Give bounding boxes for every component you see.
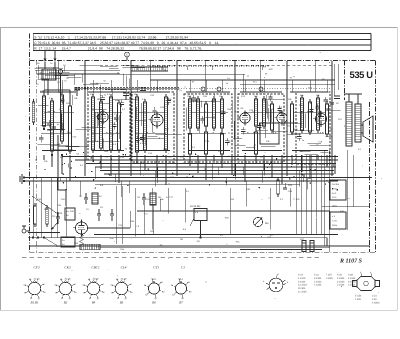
svg-text:0,1: 0,1 xyxy=(122,108,126,111)
bus line 5 xyxy=(100,170,334,172)
shield box stage3 xyxy=(132,92,174,162)
power vertical wires xyxy=(295,155,297,234)
svg-text:C7: C7 xyxy=(79,195,83,198)
svg-text:a0: a0 xyxy=(74,291,77,294)
pickup connector xyxy=(269,278,283,292)
tube CF2 IF xyxy=(240,113,250,123)
resistor R1 xyxy=(69,106,72,151)
osc trimmer xyxy=(140,87,146,89)
svg-text:a0: a0 xyxy=(162,291,165,294)
svg-text:0,1: 0,1 xyxy=(107,93,111,96)
IF2 cap xyxy=(271,104,274,130)
svg-text:C 34: C 34 xyxy=(332,220,337,223)
switch bus line xyxy=(137,210,330,212)
IF2 coil b xyxy=(263,99,266,126)
svg-text:92: 92 xyxy=(265,72,268,75)
svg-text:4,9: 4,9 xyxy=(76,153,80,156)
svg-text:C20: C20 xyxy=(150,94,155,97)
svg-text:R 1107 S: R 1107 S xyxy=(339,259,363,265)
svg-text:97: 97 xyxy=(290,76,293,79)
bus line 8 xyxy=(24,180,338,182)
heater bus 2 xyxy=(28,237,327,239)
svg-text:R8: R8 xyxy=(241,107,245,110)
dial assembly dashed line xyxy=(100,64,332,66)
svg-text:a0: a0 xyxy=(102,291,105,294)
coil S8 xyxy=(144,102,147,150)
svg-text:4a 5a Me: 4a 5a Me xyxy=(190,205,201,208)
svg-text:Sa: Sa xyxy=(66,210,69,213)
parts table frame xyxy=(33,33,371,35)
svg-text:B7: B7 xyxy=(179,301,183,305)
svg-text:C56: C56 xyxy=(288,190,293,193)
dial drive dotted line xyxy=(150,65,270,67)
svg-text:38: 38 xyxy=(336,102,339,105)
out coil b xyxy=(317,98,320,130)
svg-text:I 3135: I 3135 xyxy=(326,277,333,280)
power cross line xyxy=(322,206,370,208)
IF coil b xyxy=(197,99,200,128)
svg-text:R25: R25 xyxy=(288,184,293,187)
can top circle 1 xyxy=(201,87,205,91)
svg-text:4A 5: 4A 5 xyxy=(332,196,337,199)
heater bus 1 xyxy=(94,233,338,235)
svg-text:C 75=51,6 30,94 96, 71,46=57: C 75=51,6 30,94 96, 71,46=57,2,37 34,5 2… xyxy=(34,41,219,45)
svg-text:C77: C77 xyxy=(114,113,119,116)
svg-text:R11: R11 xyxy=(197,240,202,243)
tube base CL4 (B5) xyxy=(115,282,127,294)
svg-text:CY1: CY1 xyxy=(153,265,159,269)
shield box stage2 xyxy=(88,92,130,160)
svg-text:14: 14 xyxy=(180,278,183,281)
dial ribbon xyxy=(131,66,168,68)
speaker rear view xyxy=(357,277,375,291)
top wire y74 xyxy=(37,73,245,75)
svg-text:R36: R36 xyxy=(57,204,62,207)
svg-text:7,9: 7,9 xyxy=(136,225,140,228)
svg-text:19k: 19k xyxy=(316,94,320,97)
out res b xyxy=(326,104,329,134)
voltage box 2 xyxy=(330,212,346,229)
can top circle 3 xyxy=(259,87,263,91)
svg-text:362: 362 xyxy=(254,95,258,98)
svg-text:54k: 54k xyxy=(300,94,304,97)
svg-text:e7: e7 xyxy=(130,283,133,286)
svg-text:535 U: 535 U xyxy=(350,69,374,80)
svg-text:4a C77: 4a C77 xyxy=(166,196,174,199)
svg-text:0,1: 0,1 xyxy=(80,164,84,167)
svg-text:37k: 37k xyxy=(296,198,300,201)
tube base CK3 (B2) xyxy=(59,282,71,294)
svg-text:CBC1: CBC1 xyxy=(91,265,100,269)
svg-text:280: 280 xyxy=(70,210,74,213)
svg-text:R26: R26 xyxy=(230,198,235,201)
svg-text:3a: 3a xyxy=(66,214,69,217)
svg-text:B4: B4 xyxy=(92,301,96,305)
svg-text:4a: 4a xyxy=(254,144,257,147)
resistor R3 xyxy=(118,103,121,150)
short rail left xyxy=(28,232,60,234)
svg-text:C65: C65 xyxy=(120,248,125,251)
svg-text:1a: 1a xyxy=(100,94,103,97)
svg-text:1c 3134: 1c 3134 xyxy=(298,291,307,294)
chassis border bottom inner xyxy=(30,251,376,253)
HT line upper xyxy=(150,79,335,81)
coil S7 xyxy=(136,97,139,152)
switch contact dots xyxy=(32,237,34,239)
svg-text:C1: C1 xyxy=(63,64,67,67)
svg-text:d5: d5 xyxy=(88,278,91,281)
speaker xyxy=(363,116,373,142)
svg-text:4a 5: 4a 5 xyxy=(332,192,337,195)
coil S4 xyxy=(92,97,95,150)
tube base CBC1 (B4) xyxy=(87,282,99,294)
svg-text:1a: 1a xyxy=(268,104,271,107)
svg-text:R51: R51 xyxy=(236,241,241,244)
extra density segments xyxy=(100,66,117,68)
svg-text:q: q xyxy=(370,271,372,274)
svg-text:213: 213 xyxy=(56,245,60,248)
svg-text:C18: C18 xyxy=(318,141,323,144)
svg-text:B2: B2 xyxy=(64,301,68,305)
svg-text:B6: B6 xyxy=(152,301,156,305)
heater squiggle xyxy=(80,234,84,245)
svg-text:AE: AE xyxy=(37,62,40,65)
out coil a xyxy=(301,98,304,130)
svg-text:S26: S26 xyxy=(235,110,240,113)
bus line 3 xyxy=(86,163,336,165)
tube CBC det xyxy=(277,113,287,123)
junction dots left xyxy=(51,154,53,156)
bus connection ticks xyxy=(130,164,132,172)
svg-text:2,7: 2,7 xyxy=(111,134,115,137)
svg-text:20k: 20k xyxy=(266,140,270,143)
svg-text:C63: C63 xyxy=(160,106,165,109)
tube base C1 (B7) xyxy=(175,283,186,294)
svg-text:5a: 5a xyxy=(316,143,319,146)
aerial coil L1 box xyxy=(42,69,56,80)
svg-text:30Aa: 30Aa xyxy=(332,224,338,227)
svg-text:B5: B5 xyxy=(120,301,124,305)
stage-to-bus vertical wires xyxy=(43,155,45,160)
svg-text:S2: S2 xyxy=(192,81,195,84)
interconnect wiring mesh xyxy=(40,91,76,93)
bus line 9 xyxy=(95,183,300,185)
tube CF osc xyxy=(151,114,163,126)
tube base CF3 (B1.B1) xyxy=(28,282,40,294)
svg-text:0,1: 0,1 xyxy=(280,198,284,201)
tube CL4 output xyxy=(315,113,326,124)
IF res c xyxy=(221,134,224,154)
svg-text:0,1: 0,1 xyxy=(192,146,196,149)
svg-text:e7: e7 xyxy=(102,283,105,286)
svg-text:3,9: 3,9 xyxy=(227,140,231,143)
AF output wire xyxy=(88,227,131,229)
svg-text:L 52F: L 52F xyxy=(355,298,362,301)
output transformer windings xyxy=(346,102,352,146)
svg-text:4a: 4a xyxy=(270,114,273,117)
wire aerial to stage xyxy=(44,62,46,69)
svg-text:S21: S21 xyxy=(338,118,343,121)
svg-text:S3: S3 xyxy=(100,206,103,209)
svg-text:b: b xyxy=(287,281,289,284)
bus line 7 xyxy=(24,177,372,179)
svg-text:CL4: CL4 xyxy=(121,265,127,269)
svg-text:d5: d5 xyxy=(60,278,63,281)
coil S2 xyxy=(51,101,54,151)
svg-text:C1: C1 xyxy=(181,265,185,269)
svg-text:a0: a0 xyxy=(130,291,133,294)
svg-text:Me: Me xyxy=(265,222,269,225)
svg-text:S38: S38 xyxy=(246,188,251,191)
svg-text:1a: 1a xyxy=(57,123,60,126)
trimmer C1 xyxy=(74,87,80,89)
aerial terminal arrows xyxy=(44,51,46,62)
power verticals right xyxy=(324,150,326,246)
svg-text:8,8: 8,8 xyxy=(100,184,104,187)
svg-text:7,5: 7,5 xyxy=(179,89,183,92)
svg-text:264: 264 xyxy=(67,131,71,134)
wire left stage top xyxy=(44,89,70,91)
svg-text:C11: C11 xyxy=(262,100,267,103)
cap C75a xyxy=(98,209,100,214)
svg-text:e 3: e 3 xyxy=(332,215,336,218)
chassis border top xyxy=(30,60,376,62)
svg-text:85k: 85k xyxy=(160,198,164,201)
svg-text:S1: S1 xyxy=(86,208,89,211)
svg-text:R9: R9 xyxy=(180,238,184,241)
fuse bars xyxy=(302,241,306,252)
switch block upper xyxy=(65,208,75,220)
output compartment wall xyxy=(344,61,346,101)
left border terminal xyxy=(22,229,26,233)
svg-text:C8: C8 xyxy=(137,196,141,199)
bottom rail 1 xyxy=(30,245,370,247)
out res a xyxy=(309,102,312,132)
bus right cluster xyxy=(277,180,280,194)
svg-text:C79: C79 xyxy=(205,140,210,143)
svg-text:a: a xyxy=(263,280,265,283)
svg-text:a0: a0 xyxy=(43,291,46,294)
tube CBC1 AF xyxy=(76,222,88,234)
svg-text:S16: S16 xyxy=(90,93,95,96)
stepped feed wire xyxy=(57,135,59,190)
svg-text:e7: e7 xyxy=(74,283,77,286)
border input stack xyxy=(32,102,34,122)
circled C node xyxy=(125,52,130,57)
svg-text:8,8: 8,8 xyxy=(183,228,187,231)
svg-text:R82: R82 xyxy=(269,68,274,71)
svg-text:R28: R28 xyxy=(58,212,63,215)
voltage box 1 xyxy=(330,180,346,200)
svg-text:0,1: 0,1 xyxy=(96,246,100,249)
svg-text:S29: S29 xyxy=(150,230,155,233)
grid cap xyxy=(334,95,340,97)
svg-text:1a: 1a xyxy=(226,82,229,85)
svg-text:S 12 173,12 4,5,10 1: S 12 173,12 4,5,10 1 17,14,21/15,23,97,6… xyxy=(34,35,188,39)
meter M xyxy=(253,217,262,226)
input stack left xyxy=(34,206,37,224)
svg-text:p: p xyxy=(360,271,362,274)
svg-text:Sa 30a: Sa 30a xyxy=(332,183,340,186)
svg-text:C68: C68 xyxy=(227,108,232,111)
svg-text:40: 40 xyxy=(99,195,102,198)
supply feed verticals xyxy=(84,61,86,176)
C8 group drops xyxy=(143,205,145,234)
bus line 6 xyxy=(104,173,334,175)
svg-text:R 17 13,3, 14 15,4,7: R 17 13,3, 14 15,4,7 21,8,4 98 74,26,95,… xyxy=(34,47,202,51)
svg-text:gr: gr xyxy=(277,273,279,276)
switch detail xyxy=(194,209,207,221)
svg-text:C: C xyxy=(126,54,128,57)
chassis border right outer xyxy=(375,61,377,253)
svg-text:k2: k2 xyxy=(145,294,148,297)
svg-text:28k: 28k xyxy=(288,98,292,101)
IF coil d xyxy=(221,99,224,128)
svg-text:608: 608 xyxy=(340,210,344,213)
svg-text:4a: 4a xyxy=(103,80,106,83)
svg-text:m6: m6 xyxy=(37,277,41,280)
svg-text:C58: C58 xyxy=(61,198,66,201)
detector coupling box xyxy=(260,123,279,144)
svg-text:d5: d5 xyxy=(160,281,163,284)
chassis border bottom outer xyxy=(22,256,322,258)
tube CK1 mixer xyxy=(98,112,108,122)
coil S6 xyxy=(110,97,113,150)
det res xyxy=(291,104,294,132)
node A circle xyxy=(58,69,62,73)
cap C74 xyxy=(111,209,113,214)
svg-text:m6: m6 xyxy=(96,277,100,280)
coil S3 xyxy=(61,95,64,141)
svg-text:5a: 5a xyxy=(106,155,109,158)
can top circle 2 xyxy=(217,87,221,91)
svg-text:0,1: 0,1 xyxy=(358,148,362,151)
svg-text:1 3134: 1 3134 xyxy=(314,284,322,287)
chassis border left inner xyxy=(35,61,37,253)
misc wire segments xyxy=(135,120,147,122)
svg-text:0,1: 0,1 xyxy=(186,190,190,193)
wire junction dots xyxy=(172,173,173,174)
svg-text:C25: C25 xyxy=(73,135,78,138)
padder C8 xyxy=(123,92,129,94)
svg-text:1a: 1a xyxy=(302,139,305,142)
svg-text:R39: R39 xyxy=(225,217,230,220)
svg-text:g1: g1 xyxy=(38,297,41,300)
svg-text:g1: g1 xyxy=(69,297,72,300)
svg-text:d5: d5 xyxy=(116,278,119,281)
svg-text:2 3134: 2 3134 xyxy=(337,284,345,287)
svg-text:4 GCN: 4 GCN xyxy=(372,302,380,305)
svg-text:g1: g1 xyxy=(125,297,128,300)
svg-text:41: 41 xyxy=(153,278,156,281)
svg-text:CF3: CF3 xyxy=(33,265,39,269)
IF2 coil a xyxy=(255,99,258,126)
svg-text:g1: g1 xyxy=(97,297,100,300)
speaker wires xyxy=(348,94,350,102)
bus line 4 xyxy=(95,166,336,168)
IF coil a xyxy=(189,99,192,128)
svg-text:C73: C73 xyxy=(144,212,149,215)
svg-text:1a: 1a xyxy=(247,74,250,77)
svg-text:d5: d5 xyxy=(29,278,32,281)
shield box output xyxy=(296,92,330,164)
mains stub left xyxy=(21,174,23,184)
svg-text:m6: m6 xyxy=(124,277,128,280)
svg-text:S40: S40 xyxy=(168,155,173,158)
switch block lower xyxy=(61,237,75,247)
IF2 res xyxy=(255,132,258,154)
svg-text:R16: R16 xyxy=(203,95,208,98)
svg-text:1e: 1e xyxy=(50,62,53,65)
IF res a xyxy=(189,134,192,154)
IF can 2 box xyxy=(238,94,284,162)
svg-text:S13: S13 xyxy=(241,95,246,98)
bus line 1 xyxy=(62,156,338,158)
tube base CY1 (B6) xyxy=(148,283,159,294)
diagonal switch wire xyxy=(32,196,58,214)
svg-text:B1.B1: B1.B1 xyxy=(31,301,39,305)
svg-text:CK3: CK3 xyxy=(64,265,71,269)
AF coupling cap xyxy=(57,212,59,217)
svg-text:d5: d5 xyxy=(187,281,190,284)
svg-text:a0: a0 xyxy=(189,291,192,294)
chassis border left xyxy=(29,34,31,253)
svg-text:a b: a b xyxy=(195,211,199,214)
svg-text:70k: 70k xyxy=(74,97,78,100)
svg-text:C2: C2 xyxy=(57,81,61,84)
svg-text:5,3: 5,3 xyxy=(113,143,117,146)
left top wires xyxy=(35,69,120,71)
IF can 1 box xyxy=(184,94,232,162)
svg-text:S14: S14 xyxy=(253,81,258,84)
svg-text:R38: R38 xyxy=(130,220,135,223)
svg-text:S29: S29 xyxy=(165,128,170,131)
svg-text:C94: C94 xyxy=(74,242,79,245)
svg-text:k2: k2 xyxy=(172,294,175,297)
svg-text:1a: 1a xyxy=(227,77,230,80)
switch gang bead chain xyxy=(75,87,77,89)
svg-text:4a: 4a xyxy=(125,148,128,151)
hum coil xyxy=(80,244,100,250)
coil S1 xyxy=(43,96,46,126)
svg-text:C61: C61 xyxy=(52,215,57,218)
svg-text:e7: e7 xyxy=(43,283,46,286)
svg-text:4a: 4a xyxy=(62,239,65,242)
IF cap a xyxy=(205,104,208,126)
coil S9 xyxy=(165,97,168,150)
lower verticals xyxy=(134,188,136,237)
scan noise specks xyxy=(169,84,172,87)
svg-text:C69: C69 xyxy=(187,95,192,98)
bottom rail 2 xyxy=(240,249,322,251)
svg-text:32k: 32k xyxy=(44,160,48,163)
IF coil c xyxy=(213,99,216,128)
svg-text:727: 727 xyxy=(336,179,340,182)
chassis border right inner xyxy=(369,102,371,252)
bus line 2 xyxy=(75,159,338,161)
filament line xyxy=(37,73,120,75)
IF res b xyxy=(205,132,208,154)
AF vertical wires xyxy=(32,178,34,238)
svg-text:C14: C14 xyxy=(148,152,153,155)
svg-text:m6: m6 xyxy=(68,277,72,280)
coil S5 xyxy=(100,102,103,148)
volume pot xyxy=(46,208,49,224)
